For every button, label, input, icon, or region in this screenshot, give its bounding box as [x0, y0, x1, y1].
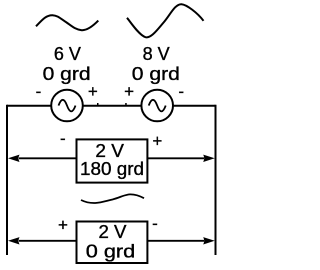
svg-text:0 grd: 0 grd: [132, 64, 180, 84]
svg-text:-: -: [178, 82, 184, 101]
svg-text:0 grd: 0 grd: [43, 64, 91, 84]
svg-text:-: -: [36, 82, 42, 101]
svg-text:8 V: 8 V: [143, 44, 170, 64]
svg-text:-: -: [152, 214, 158, 233]
svg-text:+: +: [88, 82, 98, 101]
svg-text:-: -: [60, 129, 66, 148]
svg-text:2 V: 2 V: [99, 222, 127, 242]
svg-text:2 V: 2 V: [95, 141, 124, 161]
svg-text:+: +: [152, 131, 162, 150]
svg-text:6 V: 6 V: [54, 44, 81, 64]
svg-text:0 grd: 0 grd: [86, 242, 136, 262]
svg-text:180 grd: 180 grd: [80, 159, 144, 179]
svg-text:+: +: [58, 215, 68, 234]
svg-text:+: +: [124, 82, 134, 101]
